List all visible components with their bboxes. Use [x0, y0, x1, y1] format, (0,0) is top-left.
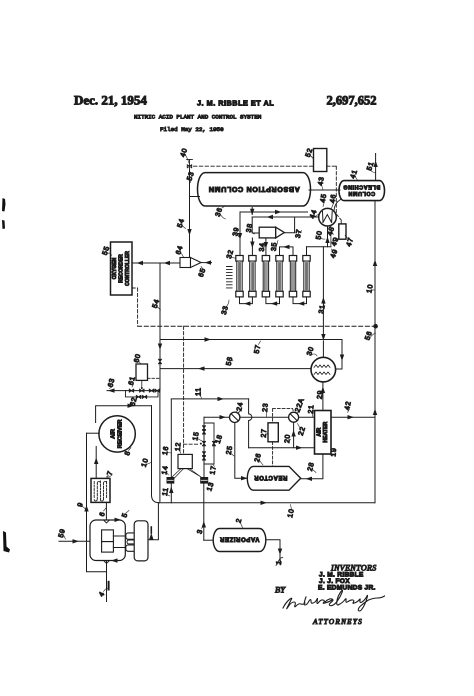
wire 22 drop to line 20: [291, 422, 295, 448]
svg-text:45: 45: [320, 193, 328, 203]
wire bypass 17 18: [204, 423, 216, 464]
svg-text:11: 11: [196, 387, 203, 396]
svg-text:22A: 22A: [294, 397, 306, 413]
wire 42 to main riser: [331, 415, 375, 419]
svg-text:REACTOR: REACTOR: [254, 474, 288, 480]
svg-text:COLUMN: COLUMN: [348, 190, 375, 196]
svg-text:25: 25: [226, 445, 234, 455]
svg-text:64: 64: [175, 245, 184, 256]
controller 60: [136, 364, 148, 380]
wire gas line 37a column right cap to bleaching column: [309, 189, 340, 191]
wire blower drop to tube 3: [264, 238, 268, 256]
wire bottom U-bend tube3-tube4: [266, 297, 280, 306]
wire sample line 65 to controller: [132, 260, 212, 265]
wire 37 blower outlet: [284, 217, 294, 233]
wire 28 air heater to reactor: [301, 454, 323, 481]
wire 10 bottom horizontal: [160, 501, 376, 505]
tube 4: [276, 256, 283, 297]
wire top arch tube4-tube5: [280, 245, 294, 256]
wire 1 vaporizer outlet: [266, 540, 282, 563]
svg-text:16: 16: [162, 445, 170, 455]
tube 1: [236, 256, 243, 297]
wire 16 riser: [169, 399, 173, 503]
separator 44: [319, 208, 337, 226]
svg-text:54: 54: [177, 218, 186, 229]
wire compressor discharge tap: [148, 503, 158, 540]
svg-text:6: 6: [99, 511, 107, 518]
valve 61 stem: [141, 380, 143, 389]
dashed signal 23 path: [273, 409, 294, 467]
control valve 22: [289, 410, 301, 422]
dashed link 60 to line 54: [148, 377, 160, 379]
svg-text:11: 11: [162, 487, 170, 497]
converter 30: [311, 357, 336, 382]
svg-text:49: 49: [330, 248, 339, 259]
scan mark left edge upper small: [2, 220, 5, 229]
svg-text:28: 28: [307, 461, 316, 472]
dashed signal line from valve 40 to box 52: [194, 165, 314, 167]
scan mark left edge upper: [2, 198, 6, 212]
tube 6: [303, 256, 310, 297]
svg-text:37: 37: [295, 228, 303, 238]
svg-text:57: 57: [254, 344, 262, 354]
wire 10 long vertical left: [152, 406, 160, 503]
wire stack to vaporizer 3: [202, 484, 214, 541]
absorption column 36: [198, 173, 311, 206]
tube 2: [249, 256, 256, 297]
wire 57 gas line to converter: [160, 337, 344, 369]
air receiver 8: [99, 416, 135, 452]
wire column bottom stub: [250, 208, 254, 216]
transmitter 12: [178, 454, 192, 468]
wire 21 control air line: [204, 415, 315, 419]
svg-text:36: 36: [215, 207, 224, 218]
svg-text:17: 17: [209, 465, 217, 475]
scan mark left edge lower: [3, 531, 10, 553]
wire blower drop to tube 2: [250, 238, 254, 256]
svg-text:27: 27: [261, 428, 269, 438]
wire 59 seal air line: [59, 539, 90, 543]
svg-text:23: 23: [262, 402, 270, 412]
svg-text:30: 30: [306, 346, 315, 357]
sensor bulb 13: [200, 477, 208, 484]
valve 40: [187, 160, 193, 173]
svg-text:10: 10: [141, 457, 150, 468]
wire 29 converter to air heater: [321, 382, 325, 411]
bleaching column 41: [339, 181, 385, 201]
svg-text:AIR: AIR: [316, 427, 322, 436]
wire vent line from valve header: [159, 391, 161, 502]
vaporizer 2: [213, 529, 266, 552]
svg-text:8: 8: [124, 450, 132, 457]
svg-text:VAPORIZER: VAPORIZER: [219, 536, 259, 542]
pot 47: [339, 224, 346, 239]
svg-text:40: 40: [180, 147, 189, 158]
svg-text:AIR: AIR: [111, 429, 117, 439]
wire bypass loop 62: [126, 391, 159, 399]
reactor 26: [247, 466, 300, 490]
tube 5: [289, 256, 296, 297]
svg-text:RECEIVER: RECEIVER: [117, 420, 123, 449]
capillary tubes from 12: [172, 469, 203, 479]
valves on stack 15: [200, 426, 206, 460]
svg-text:ABSORPTION COLUMN: ABSORPTION COLUMN: [208, 185, 300, 194]
wire 31 collector line to tube 6: [307, 247, 331, 256]
svg-text:OXYGEN: OXYGEN: [112, 257, 118, 279]
wire 10 right riser: [373, 154, 378, 503]
svg-text:33: 33: [221, 305, 230, 316]
cooler condenser tube bank 32: [236, 256, 310, 297]
svg-text:59: 59: [58, 528, 67, 539]
svg-text:4: 4: [98, 591, 106, 598]
dashed branch to transmitter 12: [184, 326, 200, 454]
svg-text:51: 51: [366, 161, 375, 172]
svg-text:42: 42: [344, 400, 352, 410]
svg-text:41: 41: [350, 169, 359, 180]
svg-text:19: 19: [330, 447, 338, 457]
valve on line 54: [159, 359, 162, 363]
control valve 24: [230, 410, 242, 423]
svg-text:10: 10: [366, 283, 374, 293]
filter 7: [91, 478, 110, 502]
svg-text:2: 2: [236, 518, 244, 524]
svg-text:47: 47: [346, 237, 355, 248]
svg-text:31: 31: [318, 304, 326, 314]
wire 39 down to tube 1: [238, 212, 242, 256]
svg-text:Filed May 22, 1950: Filed May 22, 1950: [160, 126, 224, 133]
block valves on header: [129, 389, 159, 392]
svg-text:9: 9: [77, 501, 85, 508]
svg-text:12: 12: [175, 442, 183, 452]
wire 31 down to converter junction: [321, 247, 325, 341]
wire receiver top loop to line 10: [96, 404, 152, 423]
wire 25 to reactor: [235, 423, 250, 481]
wire 54 control line vertical: [158, 263, 162, 391]
wire bottom U-bend tube5-tube6: [293, 297, 307, 306]
wire gas line B to separator 44: [252, 215, 319, 219]
wire valve stack vertical: [203, 417, 205, 477]
orifice transmitter 27: [268, 423, 278, 442]
wire gas line A under column: [240, 210, 308, 214]
svg-text:22: 22: [298, 426, 307, 437]
svg-text:E. EDMUNDS JR.: E. EDMUNDS JR.: [318, 585, 376, 592]
svg-text:3: 3: [197, 529, 205, 535]
svg-text:NITRIC ACID PLANT AND CONTROL: NITRIC ACID PLANT AND CONTROL SYSTEM: [134, 114, 262, 121]
svg-text:29: 29: [317, 390, 325, 400]
blower 38: [259, 227, 284, 238]
wire blower inlet: [252, 217, 259, 233]
wire 6 filter to compressor: [105, 503, 107, 520]
tube 3: [262, 256, 269, 297]
wire receiver left stub: [87, 432, 100, 434]
wire 20 line to air heater: [249, 446, 315, 450]
aspirator nozzle 64: [180, 258, 201, 268]
wire 9 compressor discharge riser: [84, 433, 106, 572]
svg-text:1: 1: [276, 560, 284, 566]
dashed signal from controller 55 down: [132, 288, 138, 326]
junction dot 56: [373, 324, 378, 329]
svg-text:RECORDER: RECORDER: [119, 254, 125, 283]
oxygen recorder controller 55: [111, 242, 133, 295]
controller box 52: [314, 149, 327, 172]
svg-text:56: 56: [364, 330, 373, 341]
svg-text:J. M. RIBBLE ET AL: J. M. RIBBLE ET AL: [197, 99, 274, 108]
air heater 19: [315, 411, 332, 455]
svg-text:20: 20: [284, 434, 292, 444]
svg-text:61: 61: [128, 375, 137, 386]
dashed master control line 56: [138, 325, 374, 327]
wire header 63 with valves 61 62: [107, 388, 160, 392]
cooling water comb 33: [227, 267, 233, 288]
svg-text:BLEACHING: BLEACHING: [343, 183, 380, 189]
attorney signature: [283, 590, 385, 611]
svg-text:2,697,652: 2,697,652: [327, 94, 377, 108]
wire receiver drain to filter: [94, 447, 98, 479]
wire bottom U-bend tube1-tube2: [240, 297, 253, 306]
wire 58 gas return line: [160, 366, 311, 370]
label leaders: [64, 155, 376, 592]
svg-text:18: 18: [215, 434, 224, 445]
wire 11 horizontal air line: [171, 397, 248, 401]
svg-text:Dec. 21, 1954: Dec. 21, 1954: [74, 93, 147, 108]
svg-text:BY: BY: [275, 585, 286, 595]
svg-text:ATTORNEYS: ATTORNEYS: [312, 618, 363, 626]
wire 49 beside separator: [330, 227, 332, 247]
svg-text:5: 5: [121, 512, 129, 519]
svg-text:38: 38: [246, 223, 254, 233]
svg-text:CONTROLLER: CONTROLLER: [125, 251, 131, 286]
wire converter inlet drop: [322, 341, 324, 358]
svg-text:14: 14: [161, 465, 169, 475]
svg-text:60: 60: [133, 353, 142, 364]
svg-text:HEATER: HEATER: [323, 421, 329, 442]
dashed signal line from box 52 to pot 47: [327, 166, 341, 224]
svg-text:26: 26: [254, 452, 263, 463]
wire 50 separator bottom: [325, 226, 329, 247]
wire sample line 53 54 from column: [187, 170, 199, 258]
wire 4 air suction: [107, 561, 109, 602]
stray pen mark above inventors: [276, 557, 283, 565]
compressor 5 with motor: [90, 518, 148, 564]
svg-text:44: 44: [309, 209, 318, 220]
wire 11 drop with hop: [249, 399, 252, 448]
sensor bulb 14: [167, 477, 175, 484]
wire bleaching column drain to separator: [334, 200, 341, 211]
